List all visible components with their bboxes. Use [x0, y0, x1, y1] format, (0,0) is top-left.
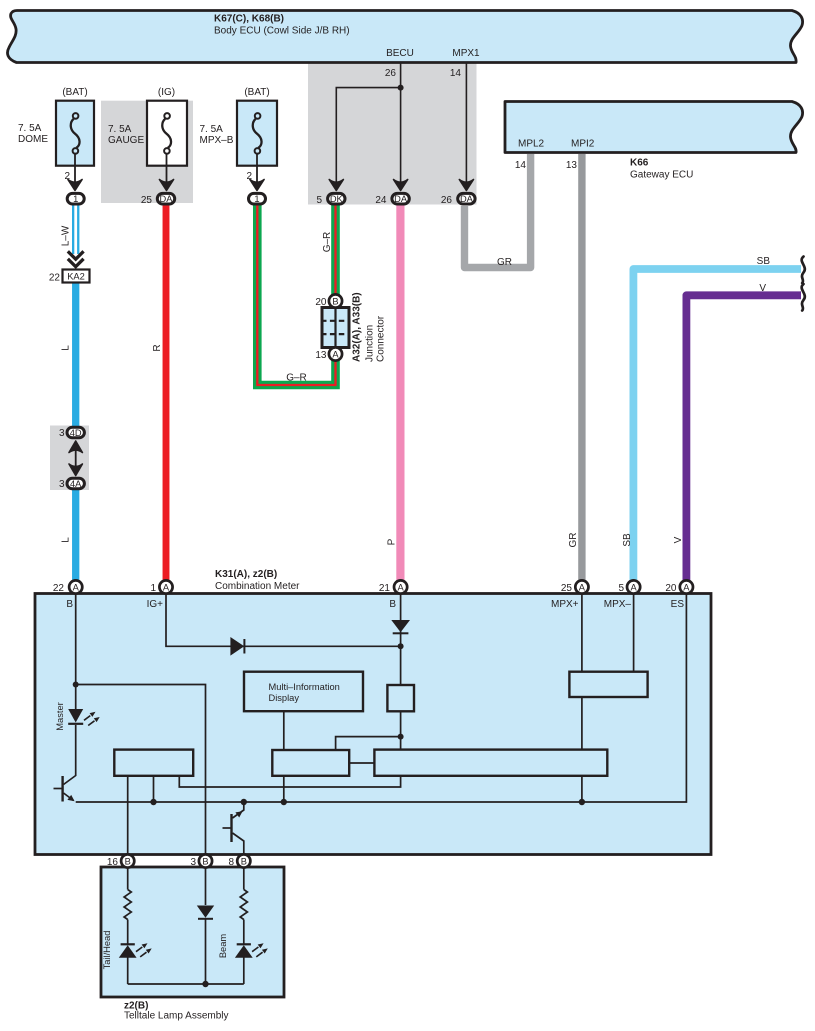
svg-text:K31(A), z2(B): K31(A), z2(B): [215, 569, 277, 580]
svg-text:Multi–Information: Multi–Information: [269, 682, 340, 692]
svg-text:A: A: [683, 583, 690, 593]
svg-text:MPL2: MPL2: [518, 139, 545, 150]
svg-text:(BAT): (BAT): [244, 87, 269, 98]
svg-text:B: B: [389, 599, 396, 610]
svg-text:R: R: [152, 344, 163, 351]
svg-text:8: 8: [228, 857, 234, 868]
svg-text:B: B: [241, 857, 247, 867]
svg-text:25: 25: [561, 583, 573, 594]
svg-text:K67(C), K68(B): K67(C), K68(B): [214, 14, 284, 25]
svg-text:26: 26: [441, 195, 453, 206]
svg-text:1: 1: [73, 194, 78, 204]
svg-text:21: 21: [379, 583, 391, 594]
svg-text:A32(A), A33(B): A32(A), A33(B): [352, 292, 363, 362]
svg-text:GR: GR: [568, 533, 579, 548]
svg-text:MPX1: MPX1: [452, 48, 480, 59]
svg-text:B: B: [66, 599, 73, 610]
svg-text:V: V: [759, 283, 766, 294]
svg-text:20: 20: [315, 297, 327, 308]
svg-text:Combination Meter: Combination Meter: [215, 581, 300, 592]
svg-text:DOME: DOME: [18, 134, 48, 145]
svg-text:5: 5: [316, 195, 322, 206]
svg-text:G–R: G–R: [322, 232, 333, 253]
svg-text:25: 25: [141, 195, 153, 206]
svg-text:GAUGE: GAUGE: [108, 135, 144, 146]
svg-text:A: A: [73, 583, 80, 593]
svg-text:5: 5: [618, 583, 624, 594]
svg-text:14: 14: [515, 160, 527, 171]
svg-text:BECU: BECU: [386, 48, 414, 59]
svg-text:4A: 4A: [70, 479, 82, 489]
svg-text:(BAT): (BAT): [62, 87, 87, 98]
svg-text:Master: Master: [55, 702, 65, 730]
svg-text:IG+: IG+: [147, 599, 164, 610]
svg-text:7. 5A: 7. 5A: [108, 124, 132, 135]
svg-text:B: B: [125, 857, 131, 867]
svg-text:Telltale Lamp Assembly: Telltale Lamp Assembly: [124, 1011, 229, 1022]
svg-text:3: 3: [59, 428, 65, 439]
svg-text:A: A: [579, 583, 586, 593]
svg-text:GR: GR: [497, 257, 512, 268]
svg-text:22: 22: [53, 583, 65, 594]
svg-text:26: 26: [385, 68, 397, 79]
svg-text:Tail/Head: Tail/Head: [102, 931, 112, 970]
svg-text:SB: SB: [622, 533, 633, 547]
svg-text:7. 5A: 7. 5A: [200, 124, 224, 135]
svg-text:DA: DA: [394, 194, 408, 204]
svg-text:L: L: [61, 345, 72, 351]
svg-text:13: 13: [315, 350, 327, 361]
svg-text:ES: ES: [671, 599, 685, 610]
svg-text:SB: SB: [757, 256, 771, 267]
svg-text:V: V: [673, 536, 684, 543]
svg-text:MPX+: MPX+: [551, 599, 579, 610]
svg-text:A: A: [630, 583, 637, 593]
svg-text:B: B: [332, 297, 338, 307]
svg-text:13: 13: [566, 160, 578, 171]
svg-text:L: L: [61, 537, 72, 543]
svg-text:A: A: [163, 583, 170, 593]
svg-text:3: 3: [190, 857, 196, 868]
svg-text:Display: Display: [269, 693, 300, 703]
svg-text:DA: DA: [160, 194, 174, 204]
svg-text:A: A: [397, 583, 404, 593]
svg-text:MPI2: MPI2: [571, 139, 595, 150]
svg-text:KA2: KA2: [67, 272, 85, 282]
svg-text:4D: 4D: [70, 428, 82, 438]
svg-text:1: 1: [150, 583, 156, 594]
svg-text:14: 14: [450, 68, 462, 79]
svg-text:P: P: [387, 538, 398, 545]
svg-text:16: 16: [107, 857, 119, 868]
svg-text:A: A: [332, 350, 339, 360]
svg-text:L–W: L–W: [61, 225, 72, 246]
svg-text:Gateway ECU: Gateway ECU: [630, 170, 693, 181]
svg-text:7. 5A: 7. 5A: [18, 123, 42, 134]
svg-text:MPX–B: MPX–B: [200, 135, 234, 146]
svg-text:K66: K66: [630, 158, 649, 169]
svg-text:Junction: Junction: [365, 325, 376, 362]
svg-text:Beam: Beam: [218, 934, 228, 959]
svg-text:B: B: [202, 857, 208, 867]
svg-text:3: 3: [59, 479, 65, 490]
svg-text:Connector: Connector: [376, 315, 387, 362]
svg-text:24: 24: [375, 195, 387, 206]
svg-text:Body ECU (Cowl Side J/B RH): Body ECU (Cowl Side J/B RH): [214, 26, 350, 37]
svg-text:22: 22: [49, 273, 61, 284]
svg-text:G–R: G–R: [286, 373, 307, 384]
svg-text:DK: DK: [330, 194, 344, 204]
svg-text:(IG): (IG): [158, 87, 175, 98]
svg-text:DA: DA: [460, 194, 474, 204]
svg-text:MPX–: MPX–: [604, 599, 632, 610]
svg-text:20: 20: [665, 583, 677, 594]
svg-text:1: 1: [254, 194, 259, 204]
